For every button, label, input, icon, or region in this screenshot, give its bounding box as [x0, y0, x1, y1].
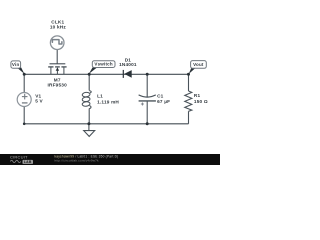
- svg-text:L1: L1: [97, 94, 103, 99]
- svg-text:CIRCUIT: CIRCUIT: [10, 154, 28, 159]
- svg-text:Vout: Vout: [193, 62, 204, 67]
- node V1 bottom corner dot: [23, 123, 26, 126]
- wire V1 to bottom rail: [23, 106, 25, 123]
- svg-text:1N4001: 1N4001: [119, 62, 137, 67]
- svg-text:150 Ω: 150 Ω: [194, 99, 208, 104]
- svg-text:1.119 mH: 1.119 mH: [97, 100, 119, 105]
- svg-text:CLK1: CLK1: [51, 19, 64, 24]
- svg-text:5 V: 5 V: [35, 98, 43, 103]
- wire R1 bottom lead: [188, 111, 190, 124]
- node Vin flag: [11, 61, 25, 74]
- wire bottom rail: [24, 123, 188, 125]
- svg-text:Vswitch: Vswitch: [94, 62, 112, 67]
- voltage source V1: [17, 93, 31, 107]
- svg-text:IRF9530: IRF9530: [48, 83, 68, 88]
- svg-text:LAB: LAB: [24, 160, 32, 164]
- clock source CLK1: [50, 36, 64, 50]
- svg-text:http://circuitlab.com/c4v9w7k: http://circuitlab.com/c4v9w7k: [55, 159, 99, 163]
- node Vin junction dot: [23, 73, 26, 76]
- inductor L1: [82, 91, 91, 109]
- footer bar: [0, 154, 220, 165]
- wire C1 bottom lead: [146, 101, 148, 124]
- wire R1 top lead: [188, 74, 190, 91]
- wire top rail: [24, 73, 188, 75]
- node C1 bottom junction dot: [146, 122, 149, 125]
- wire L1 top lead: [88, 74, 90, 90]
- svg-text:67 µF: 67 µF: [157, 99, 170, 104]
- svg-text:Vin: Vin: [12, 62, 20, 67]
- wire Vin to V1: [23, 74, 25, 93]
- node Vswitch junction dot: [88, 73, 91, 76]
- diode D1: [123, 70, 131, 78]
- wire L1 bottom lead: [88, 109, 90, 124]
- node Vswitch flag: [89, 61, 115, 74]
- node C1 top junction dot: [146, 73, 149, 76]
- node Vout junction dot: [187, 73, 190, 76]
- capacitor C1 (polarized): [139, 95, 156, 106]
- node ground junction dot: [87, 122, 90, 125]
- wire C1 top lead: [146, 74, 148, 97]
- svg-text:R1: R1: [194, 93, 201, 98]
- footer CircuitLab logo: [10, 154, 33, 164]
- svg-text:C1: C1: [157, 93, 164, 98]
- wire clock to gate: [56, 50, 58, 64]
- ground: [84, 124, 95, 137]
- resistor R1: [185, 91, 192, 111]
- transistor M7 (P-MOSFET): [48, 64, 66, 75]
- node Vout flag: [189, 61, 207, 74]
- svg-text:10 kHz: 10 kHz: [50, 25, 67, 30]
